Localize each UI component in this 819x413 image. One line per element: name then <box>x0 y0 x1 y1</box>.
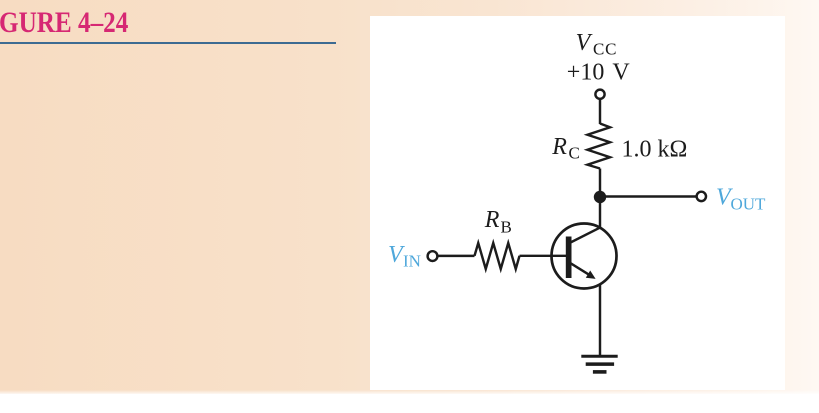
wire VCC terminal to resistor RC <box>599 99 601 124</box>
white figure box <box>370 16 785 391</box>
svg-text:V: V <box>576 30 593 56</box>
svg-text:CC: CC <box>593 39 617 58</box>
svg-text:IN: IN <box>403 252 421 271</box>
resistor RC zigzag <box>588 124 611 169</box>
VIN terminal circle <box>428 251 438 261</box>
VOUT terminal circle <box>697 192 706 201</box>
figure label FIGURE 4-24 (cropped) <box>0 7 128 40</box>
wire emitter to ground <box>599 285 601 356</box>
ground symbol <box>581 356 617 372</box>
svg-text:+10 V: +10 V <box>567 60 631 86</box>
collector node dot <box>594 191 606 203</box>
svg-text:R: R <box>551 134 567 160</box>
transistor collector diagonal <box>571 227 601 242</box>
svg-text:R: R <box>484 207 500 233</box>
wire resistor RC to collector node <box>599 169 601 197</box>
transistor base bar <box>566 237 572 279</box>
transistor emitter diagonal with arrow <box>571 263 590 275</box>
resistor RB zigzag <box>475 243 520 269</box>
wire resistor RB to transistor base <box>520 255 567 257</box>
emitter arrowhead <box>586 271 596 279</box>
blue rule under figure label <box>0 42 336 45</box>
svg-text:C: C <box>569 144 580 163</box>
svg-text:OUT: OUT <box>731 195 767 214</box>
VCC terminal circle <box>595 90 604 99</box>
wire node to VOUT terminal <box>600 195 697 197</box>
transistor Q1 circle <box>552 224 617 289</box>
svg-text:B: B <box>501 217 512 236</box>
wire node down to transistor collector <box>599 197 601 229</box>
svg-text:1.0 kΩ: 1.0 kΩ <box>622 136 688 162</box>
wire VIN terminal to resistor RB <box>438 255 475 257</box>
